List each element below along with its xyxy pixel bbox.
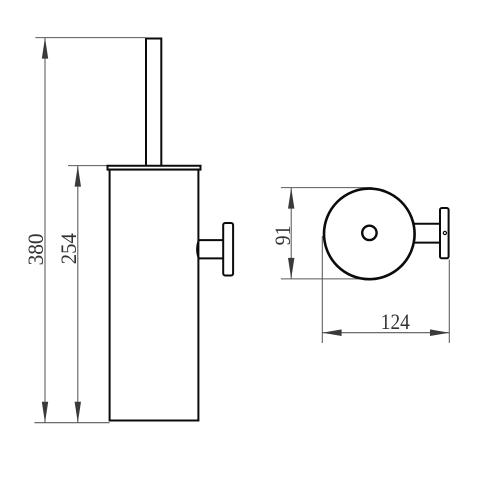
dimension 380/254 bottom extension line [34, 422, 109, 424]
wall plate (top view) [440, 208, 449, 258]
dimension 380 arrow up [42, 38, 48, 59]
svg-text:124: 124 [381, 309, 410, 334]
dimension 124 arrow left [322, 329, 341, 336]
dimension 380 line [44, 38, 46, 423]
dimension 124 arrow right [430, 329, 449, 336]
container circle (top view) [324, 189, 415, 280]
brush handle (side view) [146, 39, 161, 170]
bracket arm (side view) [197, 240, 223, 258]
dimension 91 line [290, 188, 292, 279]
brush handle circle (top view) [362, 226, 376, 240]
dimension 124 left extension line [321, 236, 323, 343]
dimension 124 line [322, 332, 449, 334]
container body (side view) [110, 170, 199, 421]
dimension 380 top extension line [35, 37, 145, 39]
svg-text:380: 380 [23, 233, 48, 265]
wall plate (side view) [223, 223, 233, 276]
dimension 380 arrow down [42, 402, 48, 423]
svg-text:254: 254 [56, 233, 81, 264]
lid (side view) [108, 166, 201, 170]
dimension 91 top extension line [281, 187, 372, 189]
dimension 91 arrow up [288, 188, 294, 209]
svg-text:91: 91 [270, 225, 295, 245]
dimension 254 arrow down [75, 402, 81, 423]
dimension 124 right extension line [448, 260, 450, 344]
dimension 91 bottom extension line [281, 278, 370, 280]
dimension 91 arrow down [288, 258, 294, 279]
dimension 254 line [77, 166, 79, 423]
dimension 254 top extension line [68, 165, 107, 167]
dimension 254 arrow up [75, 166, 81, 187]
bracket arm (top view) [414, 224, 441, 243]
screw hole (top view) [443, 231, 446, 234]
